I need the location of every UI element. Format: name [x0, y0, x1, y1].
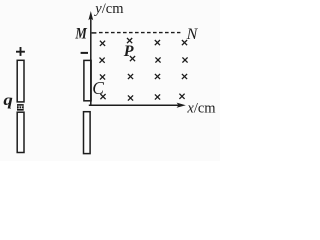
tick at M on y-axis — [92, 32, 97, 34]
field cross r3c4 — [182, 74, 187, 79]
minus sign on right plate — [81, 52, 88, 54]
field cross r1c3 — [155, 40, 160, 45]
field cross r4c1 — [100, 94, 105, 99]
left charged plate upper section — [17, 60, 24, 102]
field cross r3c1 — [100, 74, 105, 79]
field cross r4c4 — [179, 94, 184, 99]
x-axis arrowhead — [177, 103, 186, 108]
field cross r1c1 — [100, 41, 105, 46]
plus sign on left plate — [16, 47, 25, 56]
negative plate upper section — [84, 60, 91, 100]
x-axis — [89, 104, 179, 106]
y-axis arrowhead — [88, 11, 93, 20]
svg-text:x/cm: x/cm — [186, 101, 216, 117]
field cross r2c4 — [182, 57, 187, 62]
field cross r1c4 — [182, 40, 187, 45]
field cross r3c2 — [128, 74, 133, 79]
svg-text:y/cm: y/cm — [93, 1, 124, 17]
field cross r3c3 — [155, 74, 160, 79]
dashed boundary line MN — [99, 32, 180, 34]
svg-text:q: q — [3, 92, 13, 109]
field cross r4c2 — [128, 95, 133, 100]
field cross r2c3 — [155, 57, 160, 62]
particle q (black block) — [17, 104, 24, 111]
field cross r2c1 — [100, 58, 105, 63]
field cross r1c2 — [127, 38, 132, 43]
left charged plate lower section — [17, 112, 24, 152]
negative plate lower section — [84, 112, 91, 154]
field cross r4c3 — [155, 94, 160, 99]
y-axis — [90, 16, 92, 106]
svg-text:M: M — [75, 26, 88, 43]
field cross r2c2 — [130, 56, 135, 61]
